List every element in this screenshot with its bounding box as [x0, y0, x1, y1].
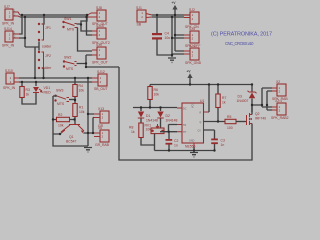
junction at (43.5,78) — [42, 77, 44, 79]
svg-text:solder: solder — [42, 45, 52, 49]
wire ground bus — [155, 150, 215, 152]
junction at (88,114) — [87, 113, 89, 115]
wire JP2 bottom to SPK net — [43, 68, 45, 78]
junction at (44,15) — [43, 14, 45, 16]
transistor Q1 — [60, 120, 94, 144]
svg-text:CV: CV — [198, 130, 202, 133]
wire CV to C3 — [204, 130, 215, 151]
connector SJ3 — [184, 27, 200, 48]
svg-text:1N4148: 1N4148 — [146, 119, 158, 123]
junction at (160.5,107.5) — [159, 106, 161, 108]
svg-text:R: R — [200, 112, 202, 115]
svg-text:GR_RAB: GR_RAB — [95, 143, 110, 147]
connector SJ8 — [88, 6, 108, 26]
junction at (75,100) — [74, 99, 76, 101]
wire SPK net y78 — [19, 77, 92, 79]
svg-text:VCC: VCC — [192, 103, 195, 108]
svg-text:SJ2: SJ2 — [189, 8, 195, 12]
junction at (169,150.5) — [168, 149, 170, 151]
resistor R4 — [73, 78, 84, 104]
svg-text:R8: R8 — [129, 126, 133, 130]
wire net A top — [20, 14, 89, 16]
svg-text:SPK_IN: SPK_IN — [3, 86, 16, 90]
svg-text:X2: X2 — [276, 80, 280, 84]
svg-text:1N4148: 1N4148 — [166, 119, 178, 123]
resistor R1 — [73, 104, 85, 120]
svg-text:SW3: SW3 — [56, 89, 63, 93]
junction at (93,133) — [92, 132, 94, 134]
junction at (218,121.5) — [217, 120, 219, 122]
svg-text:10k: 10k — [79, 110, 85, 114]
junction at (87,15) — [86, 14, 88, 16]
connector X2.1 — [271, 99, 289, 120]
svg-text:R4: R4 — [79, 84, 83, 88]
diode D3 — [237, 85, 257, 113]
junction at (157,15) — [156, 14, 158, 16]
junction at (53,119.5) — [52, 118, 54, 120]
svg-text:R2: R2 — [58, 113, 62, 117]
junction at (252,84.5) — [251, 83, 253, 85]
junction at (172,38) — [171, 37, 173, 39]
svg-text:CNC_CROSS v10: CNC_CROSS v10 — [225, 41, 254, 46]
wire GND riser x172 — [172, 17, 184, 57]
junction at (35,78) — [34, 77, 36, 79]
wire DIS node — [133, 107, 177, 109]
capacitor C3 — [211, 139, 225, 148]
ground left — [84, 148, 92, 153]
junction at (218,84.5) — [217, 83, 219, 85]
svg-text:MTS: MTS — [67, 28, 75, 32]
svg-text:D3: D3 — [238, 95, 242, 99]
svg-text:R3: R3 — [26, 88, 30, 92]
junction at (86,67) — [85, 66, 87, 68]
ground U1 — [190, 147, 198, 157]
junction at (22,15) — [21, 14, 23, 16]
wire JP2 top feed — [38, 47, 40, 51]
connector SJ15 — [92, 24, 110, 45]
ground top right — [168, 58, 176, 62]
wire SW1 output — [77, 15, 93, 51]
junction at (75,78) — [74, 77, 76, 79]
svg-text:R6: R6 — [154, 88, 158, 92]
svg-text:Q2: Q2 — [255, 112, 260, 116]
resistor R6 — [148, 85, 159, 108]
junction at (194,150.5) — [193, 149, 195, 151]
svg-text:SJ8: SJ8 — [96, 6, 102, 10]
svg-text:(C) PERATRONIKA, 2017: (C) PERATRONIKA, 2017 — [211, 32, 272, 38]
svg-text:Q: Q — [200, 121, 202, 124]
wire SJ14 pin1 riser — [19, 15, 22, 34]
svg-text:R5: R5 — [227, 115, 231, 119]
junction at (22,82) — [21, 81, 23, 83]
wire +V riser x175 — [175, 15, 184, 51]
wire SJ8.2 net riser — [86, 17, 119, 67]
switch SW3 — [54, 89, 69, 107]
junction at (209,84.5) — [208, 83, 210, 85]
power +V mid — [187, 70, 193, 85]
wire SPK net y82 — [19, 81, 92, 83]
transistor Q2 — [245, 105, 266, 125]
jumper JP2 — [38, 51, 52, 70]
svg-text:SPK_IN: SPK_IN — [2, 44, 15, 48]
jumper JP1 — [38, 23, 52, 49]
junction at (74.5,119.5) — [73, 118, 75, 120]
junction at (25,17) — [24, 16, 26, 18]
svg-text:JP1: JP1 — [45, 26, 51, 30]
svg-text:1n: 1n — [221, 143, 225, 147]
capacitor C4 — [152, 15, 172, 55]
junction at (88,78) — [87, 77, 89, 79]
junction at (60,134) — [59, 133, 61, 135]
resistor R3 — [20, 82, 36, 104]
svg-text:100: 100 — [227, 126, 233, 130]
svg-text:JP2: JP2 — [45, 54, 51, 58]
wire JP1 top feed — [42, 15, 44, 24]
junction at (214.5,150.5) — [213, 149, 215, 151]
connector SJ10 — [3, 69, 19, 90]
connector SJ4 — [184, 44, 202, 65]
svg-text:10k: 10k — [154, 93, 160, 97]
wire X13 feeds — [88, 114, 94, 133]
wire JP1 bottom to net — [38, 42, 40, 48]
svg-text:1k: 1k — [26, 93, 30, 97]
wire SW3 pole down — [53, 96, 57, 120]
svg-text:10u: 10u — [165, 36, 171, 40]
wire to SJ10 net — [25, 47, 39, 78]
wire output node — [252, 88, 272, 110]
junction at (150,107.5) — [149, 106, 151, 108]
svg-text:SPK_RAB2: SPK_RAB2 — [271, 116, 289, 120]
junction at (25,38) — [24, 37, 26, 39]
svg-text:X13: X13 — [98, 107, 104, 111]
svg-text:MTS: MTS — [66, 67, 74, 71]
trimmer RV1 — [145, 123, 165, 133]
resistor R2 — [53, 113, 88, 146]
power +V top — [172, 1, 178, 15]
svg-text:SJ15: SJ15 — [96, 24, 104, 28]
svg-text:SB_OUT: SB_OUT — [94, 87, 108, 91]
switch SW1 — [62, 17, 76, 32]
connector X2 — [272, 80, 288, 101]
junction at (168.7,131.7) — [168, 131, 170, 133]
svg-text:SJ14: SJ14 — [4, 27, 12, 31]
svg-text:SJ9: SJ9 — [96, 43, 102, 47]
LED VD1 — [33, 82, 51, 94]
svg-text:IRF740: IRF740 — [255, 117, 266, 121]
wire TH node — [160, 131, 177, 133]
connector SJ9 — [92, 43, 108, 65]
connector X6 — [94, 126, 110, 147]
diode D1 — [138, 108, 158, 124]
svg-text:10k: 10k — [79, 89, 85, 93]
svg-text:GND: GND — [189, 140, 195, 143]
resistor R5 — [225, 115, 245, 130]
wire net B right — [152, 16, 184, 18]
svg-text:DC: DC — [183, 108, 187, 111]
power rail wire — [150, 84, 252, 86]
svg-text:10k: 10k — [58, 124, 64, 128]
svg-text:D1: D1 — [146, 114, 150, 118]
wire net B top — [20, 16, 89, 18]
junction at (175,15) — [174, 14, 176, 16]
svg-text:R7: R7 — [222, 96, 226, 100]
junction at (252,105) — [251, 104, 253, 106]
connector SJ2 — [184, 8, 199, 29]
junction at (88,133) — [87, 132, 89, 134]
svg-text:SPK_OUT: SPK_OUT — [92, 61, 108, 65]
junction at (175,35) — [174, 34, 176, 36]
svg-text:X2.1: X2.1 — [275, 99, 282, 103]
connector SJ7 — [2, 5, 20, 26]
connector SJ1 — [136, 6, 152, 27]
svg-text:C2: C2 — [174, 139, 178, 143]
junction at (172,17) — [171, 16, 173, 18]
svg-text:U1: U1 — [200, 99, 204, 103]
switch SW2 — [63, 56, 77, 72]
connector SJ12 — [92, 70, 108, 91]
svg-text:SJ1: SJ1 — [136, 6, 142, 10]
connector X13 — [94, 107, 109, 128]
wire net A right — [152, 14, 190, 16]
svg-text:RED: RED — [44, 90, 52, 94]
svg-text:SJ4: SJ4 — [189, 44, 195, 48]
svg-text:1k: 1k — [222, 101, 226, 105]
wire output loop — [119, 67, 252, 160]
svg-text:TH: TH — [183, 131, 186, 134]
wire OUT — [204, 121, 226, 123]
wire SJ14 pin2 riser — [19, 17, 25, 47]
resistor R7 — [216, 85, 227, 122]
svg-text:SW2: SW2 — [64, 56, 71, 60]
svg-text:10k: 10k — [146, 128, 152, 132]
wire RST riser — [208, 85, 211, 113]
svg-text:SJ3: SJ3 — [189, 27, 195, 31]
junction at (36,82) — [35, 81, 37, 83]
junction at (267,105) — [266, 104, 268, 106]
svg-text:SPK_GND: SPK_GND — [185, 61, 202, 65]
svg-text:SB: SB — [137, 23, 142, 27]
svg-text:SW1: SW1 — [64, 17, 71, 21]
svg-text:R1: R1 — [79, 106, 83, 110]
svg-text:X6: X6 — [98, 126, 102, 130]
svg-text:SPK_IN: SPK_IN — [2, 22, 15, 26]
svg-text:SJ10: SJ10 — [5, 69, 13, 73]
resistor R8 — [129, 123, 155, 145]
wire TR link — [169, 125, 178, 132]
junction at (190,84.5) — [189, 83, 191, 85]
svg-text:MTS: MTS — [57, 102, 65, 106]
junction at (262,105) — [261, 104, 263, 106]
wire RV1 bottom — [154, 134, 156, 151]
connector SJ14 — [2, 27, 19, 48]
svg-text:C4: C4 — [165, 32, 169, 36]
junction at (86,63.5) — [85, 62, 87, 64]
svg-text:1N4007: 1N4007 — [237, 99, 249, 103]
svg-text:SJ7: SJ7 — [4, 5, 10, 9]
svg-text:D2: D2 — [166, 114, 170, 118]
svg-text:BC547: BC547 — [66, 139, 76, 143]
svg-text:SJ12: SJ12 — [97, 70, 105, 74]
svg-text:TR: TR — [183, 124, 186, 127]
junction at (172,55) — [171, 54, 173, 56]
junction at (141,107.5) — [140, 106, 142, 108]
junction at (81,24.5) — [80, 23, 82, 25]
diode D2 — [157, 108, 177, 129]
wire SW3 to divider — [69, 99, 75, 101]
svg-text:C3: C3 — [221, 139, 225, 143]
wire SW2 output — [77, 64, 89, 147]
svg-text:1n: 1n — [174, 144, 178, 148]
junction at (86.5,17) — [85, 16, 87, 18]
op-amp U1 — [177, 99, 209, 149]
capacitor C2 — [166, 132, 179, 151]
svg-text:1k: 1k — [131, 130, 135, 134]
